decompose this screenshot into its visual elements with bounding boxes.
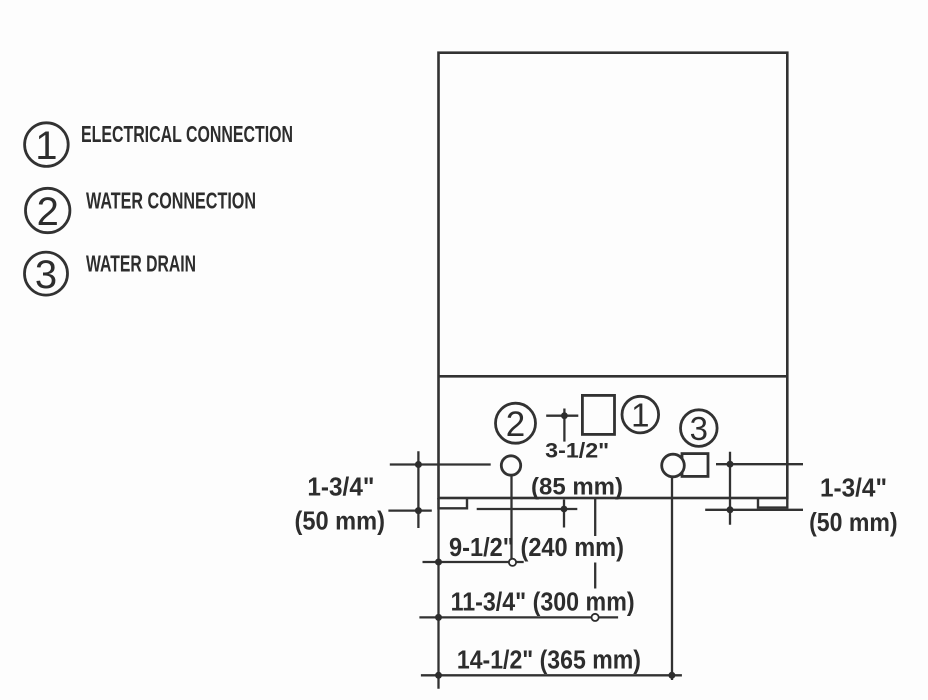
dot marker right bottom tick — [727, 506, 734, 513]
14-1/2 dimension line — [421, 674, 682, 676]
electrical connection square — [582, 395, 614, 434]
left top tick line — [390, 463, 491, 465]
right foot — [758, 498, 787, 508]
svg-text:(85 mm): (85 mm) — [531, 474, 623, 501]
85mm vertical stub — [563, 500, 565, 528]
cabinet divider line — [439, 375, 788, 378]
dot marker 9-1/2 left end — [435, 559, 442, 566]
dot marker left top tick — [415, 461, 422, 468]
svg-text:2: 2 — [506, 405, 525, 444]
legend circle 2 — [26, 188, 70, 232]
svg-text:1: 1 — [631, 397, 649, 434]
svg-text:1-3/4": 1-3/4" — [820, 473, 887, 503]
left dimension vertical line — [417, 451, 419, 528]
dot marker 14-1/2 right end — [668, 672, 675, 679]
9-1/2 dimension line — [423, 561, 524, 563]
svg-text:1-3/4": 1-3/4" — [307, 472, 374, 502]
drain rectangle — [682, 454, 708, 477]
dot marker 11-3/4 left end — [435, 614, 442, 621]
svg-text:3-1/2": 3-1/2" — [545, 440, 609, 463]
circled 1 in diagram — [622, 396, 659, 433]
dot marker 14-1/2 left end — [435, 672, 442, 679]
open circle marker on 11-3/4 line — [592, 614, 599, 621]
legend circle 3 — [25, 252, 68, 295]
electrical vertical segment lower — [594, 563, 596, 589]
right top tick line — [716, 463, 803, 465]
svg-text:(50 mm): (50 mm) — [809, 507, 898, 537]
svg-text:WATER CONNECTION: WATER CONNECTION — [86, 188, 256, 214]
water connection port circle — [501, 456, 520, 475]
svg-text:WATER DRAIN: WATER DRAIN — [86, 251, 196, 277]
svg-text:3: 3 — [690, 410, 708, 447]
11-3/4 dimension line — [419, 616, 618, 618]
svg-text:9-1/2" (240 mm): 9-1/2" (240 mm) — [449, 534, 624, 562]
dot marker right top tick — [727, 461, 734, 468]
cabinet outline — [439, 53, 788, 498]
circled 2 in diagram — [496, 403, 536, 443]
left foot — [439, 498, 468, 508]
svg-text:14-1/2" (365 mm): 14-1/2" (365 mm) — [457, 646, 641, 674]
under-cabinet 85mm line — [477, 508, 578, 510]
open circle marker on 9-1/2 line — [509, 559, 516, 566]
water port vertical line — [510, 475, 512, 562]
dot marker plus near square — [561, 412, 568, 419]
circled 3 in diagram — [681, 410, 718, 447]
left bottom tick line — [388, 509, 431, 511]
svg-text:2: 2 — [37, 190, 59, 234]
drain vertical line — [671, 477, 673, 680]
svg-text:ELECTRICAL CONNECTION: ELECTRICAL CONNECTION — [81, 121, 293, 147]
legend circle 1 — [25, 123, 69, 167]
right bottom tick line — [705, 509, 803, 511]
svg-text:11-3/4" (300 mm): 11-3/4" (300 mm) — [451, 588, 635, 616]
left edge extension line — [437, 498, 439, 689]
dot marker under-cabinet line — [561, 506, 568, 513]
svg-text:3: 3 — [35, 253, 57, 297]
electrical vertical segment upper — [594, 498, 596, 536]
drain circle — [662, 454, 685, 477]
svg-text:1: 1 — [35, 124, 57, 168]
svg-text:(50 mm): (50 mm) — [295, 506, 386, 536]
dot marker left bottom tick — [415, 507, 422, 514]
plus marker near square — [546, 415, 578, 417]
right dimension vertical line — [729, 452, 731, 525]
